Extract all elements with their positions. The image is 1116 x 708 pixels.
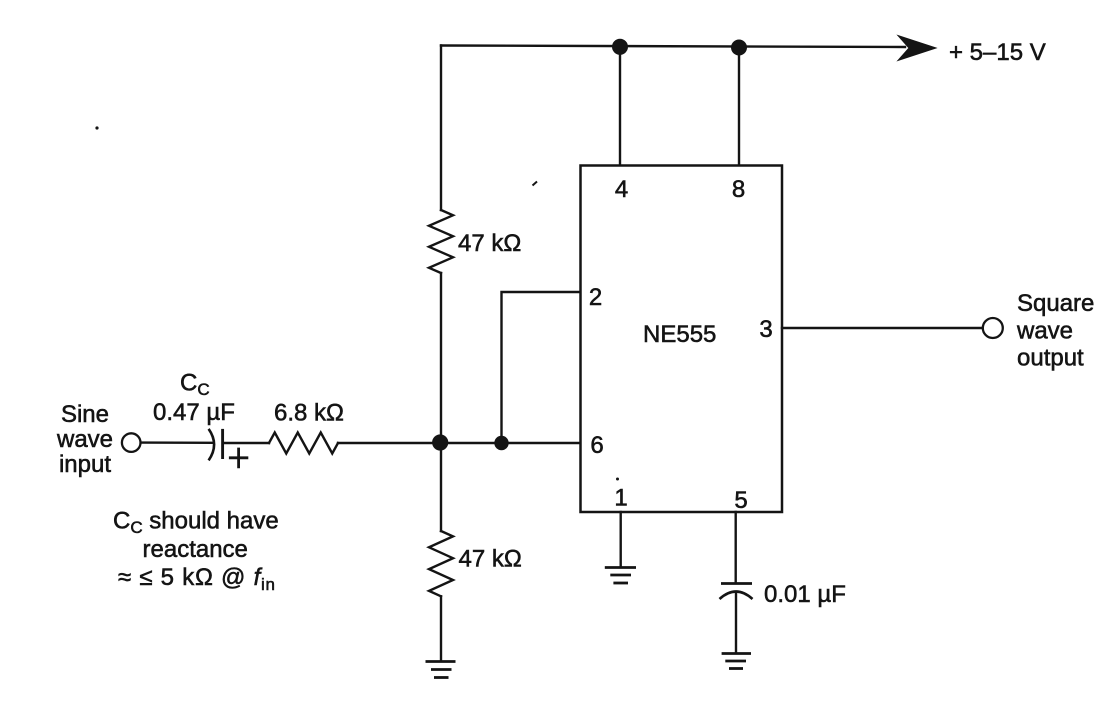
svg-text:8: 8 <box>732 176 745 203</box>
svg-text:47 kΩ: 47 kΩ <box>459 546 522 573</box>
svg-text:wave: wave <box>56 426 113 453</box>
svg-text:2: 2 <box>589 284 602 311</box>
svg-text:input: input <box>59 451 111 478</box>
svg-text:+ 5–15 V: + 5–15 V <box>949 39 1046 66</box>
svg-text:6.8 kΩ: 6.8 kΩ <box>274 400 344 427</box>
svg-text:output: output <box>1017 345 1084 372</box>
svg-text:0.47 µF: 0.47 µF <box>153 399 235 426</box>
svg-text:wave: wave <box>1016 318 1073 345</box>
svg-text:reactance: reactance <box>143 536 248 563</box>
svg-text:CC should have: CC should have <box>113 508 279 538</box>
svg-text:NE555: NE555 <box>643 321 716 348</box>
svg-text:Square: Square <box>1017 290 1094 317</box>
svg-text:5: 5 <box>734 487 747 514</box>
svg-text:Sine: Sine <box>61 401 109 428</box>
svg-text:0.01 µF: 0.01 µF <box>764 581 846 608</box>
svg-text:1: 1 <box>614 485 627 512</box>
svg-text:47 kΩ: 47 kΩ <box>458 230 521 257</box>
svg-text:6: 6 <box>590 432 603 459</box>
svg-text:3: 3 <box>759 316 772 343</box>
svg-text:CC: CC <box>180 370 210 400</box>
svg-text:≈ ≤ 5 kΩ @ fin: ≈ ≤ 5 kΩ @ fin <box>118 564 276 594</box>
svg-text:4: 4 <box>615 176 628 203</box>
